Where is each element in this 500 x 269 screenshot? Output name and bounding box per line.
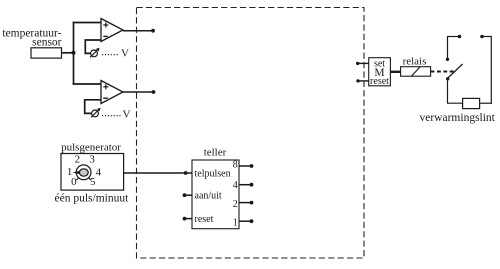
op-amp comparator 2 xyxy=(101,81,123,104)
svg-text:reset: reset xyxy=(370,76,389,87)
svg-text:sensor: sensor xyxy=(32,37,62,49)
svg-text:teller: teller xyxy=(204,147,227,159)
svg-text:4: 4 xyxy=(96,167,102,179)
memory flip-flop M xyxy=(369,58,391,87)
svg-text:reset: reset xyxy=(195,214,214,225)
label temperatuur-sensor xyxy=(2,28,61,49)
svg-text:V: V xyxy=(121,48,129,60)
dashed system boundary box xyxy=(137,8,365,259)
op-amp comparator 1 xyxy=(101,19,123,42)
dotted leader V1 xyxy=(102,54,118,56)
svg-text:één puls/minuut: één puls/minuut xyxy=(55,192,130,204)
wire left vertical upper xyxy=(447,36,449,59)
terminal dot telpulsen input xyxy=(184,171,188,175)
input stub set xyxy=(356,62,369,65)
counter box teller xyxy=(192,160,239,229)
switch contact lower xyxy=(446,77,449,80)
wire right vertical xyxy=(490,36,492,104)
wire bottom rail right xyxy=(480,102,492,104)
dial numbers xyxy=(67,153,102,188)
junction dot xyxy=(72,51,76,55)
wire comparator 2 output xyxy=(123,91,154,93)
svg-text:verwarmingslint: verwarmingslint xyxy=(420,112,496,124)
wire left vertical lower xyxy=(447,79,449,103)
output stub 8 xyxy=(239,164,253,168)
svg-text:5: 5 xyxy=(90,176,96,188)
output stub 2 xyxy=(239,201,253,205)
dotted leader V2 xyxy=(102,115,121,117)
wire comparator 2 - input xyxy=(85,100,101,114)
wire bottom rail left xyxy=(447,102,463,104)
terminal dot node A xyxy=(151,29,155,33)
input stub reset xyxy=(183,217,192,221)
mains terminal left xyxy=(448,35,462,39)
input stub aan/uit xyxy=(183,193,192,197)
mains terminal right xyxy=(480,35,491,39)
svg-text:aan/uit: aan/uit xyxy=(195,191,222,202)
terminal dot node B xyxy=(152,90,156,94)
svg-text:1: 1 xyxy=(233,218,238,229)
switch contact upper xyxy=(446,58,449,61)
svg-text:2: 2 xyxy=(233,199,238,210)
pulse generator box xyxy=(61,154,124,191)
relay coil xyxy=(401,67,431,77)
input stub reset M xyxy=(356,79,368,82)
potentiometer P1 xyxy=(90,48,100,58)
wire sensor to node xyxy=(62,52,74,54)
wire branch vertical xyxy=(73,22,75,85)
potentiometer P2 xyxy=(91,108,101,118)
wire to comparator 1 + input xyxy=(73,22,101,24)
svg-text:3: 3 xyxy=(89,153,95,165)
switch blade xyxy=(448,64,463,78)
wire M to relay coil xyxy=(390,71,400,73)
svg-text:8: 8 xyxy=(233,160,238,171)
svg-text:pulsgenerator: pulsgenerator xyxy=(61,142,121,154)
wire to comparator 2 + input xyxy=(73,83,101,85)
svg-text:0: 0 xyxy=(71,176,77,188)
output stub 4 xyxy=(239,183,253,187)
wire comparator 1 output xyxy=(123,30,153,32)
svg-text:4: 4 xyxy=(233,180,238,191)
svg-text:V: V xyxy=(123,108,131,120)
svg-text:telpulsen: telpulsen xyxy=(195,168,231,179)
heating element verwarmingslint xyxy=(463,98,480,108)
rotary dial xyxy=(72,165,91,180)
temperature sensor xyxy=(31,48,62,58)
wire pulse generator to counter xyxy=(124,172,192,174)
output stub 1 xyxy=(239,219,253,223)
svg-text:relais: relais xyxy=(403,56,427,68)
svg-text:2: 2 xyxy=(75,154,81,166)
wire comparator 1 - input xyxy=(85,40,101,53)
dashed mechanical link relay to switch xyxy=(431,71,455,73)
